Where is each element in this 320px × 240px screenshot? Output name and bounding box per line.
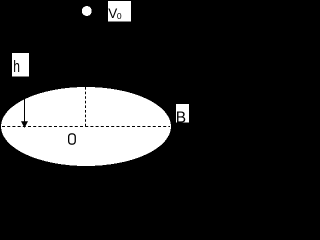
dashed horizontal axis line	[2, 126, 170, 128]
svg-text:h: h	[13, 58, 20, 76]
svg-text:B: B	[176, 109, 186, 126]
label box h	[12, 53, 29, 77]
arrow h (head)	[21, 121, 28, 128]
label box B	[176, 104, 189, 123]
dashed vertical axis line	[85, 87, 87, 127]
ellipse (mound surface)	[1, 87, 171, 166]
svg-text:0: 0	[117, 11, 122, 21]
label box V0	[108, 1, 131, 22]
arrow h (shaft)	[24, 97, 26, 122]
label O text	[69, 134, 76, 144]
ball	[82, 6, 92, 16]
